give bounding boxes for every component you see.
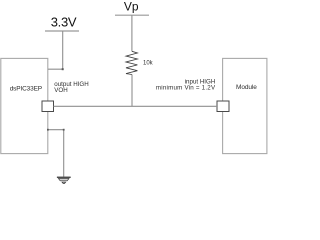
pin square on dsPIC33EP output (42, 101, 54, 112)
power rail Vp bar (115, 14, 149, 16)
label Vp (124, 0, 139, 13)
label Module (236, 84, 257, 91)
svg-text:Module: Module (236, 84, 257, 91)
pin square on Module input (217, 101, 229, 112)
ground symbol (57, 177, 71, 184)
wire resistor bottom lead (131, 75, 133, 107)
wire Vp to resistor top (131, 15, 133, 51)
IC box U1 dsPIC33EP (1, 58, 48, 153)
resistor R1 zigzag (126, 51, 137, 74)
svg-text:3.3V: 3.3V (51, 14, 77, 29)
node dot at ground elbow (63, 129, 65, 131)
label dsPIC33EP (10, 85, 42, 92)
wire ground branch from dsPIC33EP (48, 130, 64, 177)
svg-text:minimum Vin = 1.2V: minimum Vin = 1.2V (156, 85, 216, 92)
svg-text:VOH: VOH (54, 87, 67, 94)
power rail 3.3V bar (45, 30, 79, 32)
module box U2 Module (223, 58, 267, 153)
wire 3.3V stem down (48, 31, 63, 69)
wire main net output to module (54, 105, 218, 107)
label output HIGH VOH (54, 81, 88, 94)
value label 10k (143, 61, 154, 67)
svg-text:10k: 10k (143, 61, 154, 67)
label 3.3V (51, 14, 77, 29)
svg-text:dsPIC33EP: dsPIC33EP (10, 85, 42, 92)
label input HIGH minimum Vin (156, 78, 216, 91)
node dot at box edge ground branch (47, 129, 49, 131)
node dot at 3.3V elbow (62, 68, 64, 70)
svg-text:Vp: Vp (124, 0, 139, 13)
